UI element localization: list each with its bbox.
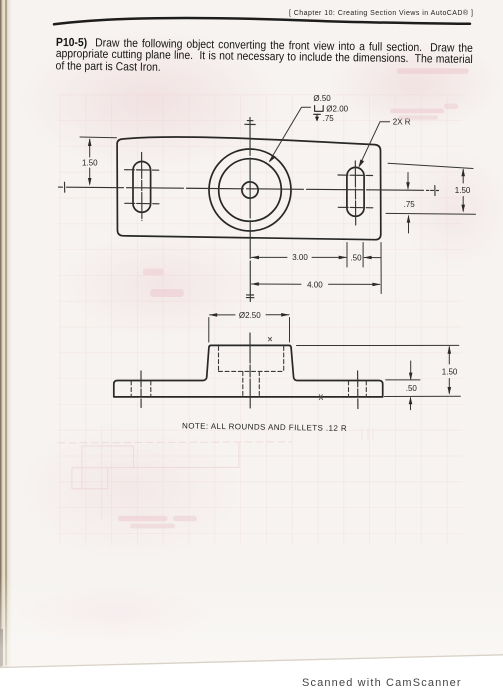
svg-text:Ø2.00: Ø2.00 xyxy=(326,105,348,114)
stray pencil mark x upper xyxy=(268,337,271,341)
dim .75 lower arrow line xyxy=(408,216,410,233)
svg-text:[ Chapter 10: Creating Sectio: [ Chapter 10: Creating Section Views in … xyxy=(289,9,473,17)
counterbore circle Ø2.00 xyxy=(219,159,282,222)
extension line base bottom xyxy=(385,395,461,397)
dim 3.00 line right segment xyxy=(312,256,346,258)
arrowhead .75 down xyxy=(406,182,410,190)
dim 1.50 left line upper xyxy=(89,139,91,157)
counterbore symbol xyxy=(315,106,324,112)
pink bleed-through ghost text smudges xyxy=(118,68,469,528)
header rule xyxy=(54,18,470,24)
left slot lower arc center tick xyxy=(125,202,159,205)
horizontal centerline left end dash xyxy=(59,186,63,188)
extension line slot left edge xyxy=(346,243,348,268)
leader line counterbore callout xyxy=(270,107,311,161)
front view left slot centerline xyxy=(140,371,142,408)
paragraph problem text xyxy=(55,38,472,79)
dim .50 front upper arrow line xyxy=(410,361,412,379)
svg-text:.50: .50 xyxy=(350,253,362,262)
arrowhead 1.50 right down xyxy=(461,205,465,213)
center hole Ø.50 xyxy=(242,182,258,198)
extension line boss left xyxy=(208,318,210,343)
dim 1.50 right line upper xyxy=(462,170,464,184)
vertical centerline top tick 1 xyxy=(247,120,253,122)
dim .50 arrow line xyxy=(364,257,381,259)
dim Ø2.50 line left segment xyxy=(210,314,235,316)
right slot vertical centerline xyxy=(354,161,356,225)
faint pink graph-paper bleed grid xyxy=(58,95,462,545)
hidden line left slot right xyxy=(150,381,152,396)
svg-text:4.00: 4.00 xyxy=(307,281,323,290)
arrowhead 1.50 front up xyxy=(448,346,452,354)
extension line boss right xyxy=(289,318,291,343)
stray pencil mark x lower xyxy=(319,395,322,400)
arrowhead .50 front down xyxy=(409,373,413,381)
extension line plate right edge xyxy=(380,243,382,294)
extension line right upper xyxy=(388,163,473,168)
leader line 2X R callout xyxy=(359,122,389,166)
hidden line counterbore right xyxy=(283,346,285,371)
arrowhead 1.50 left down xyxy=(88,178,92,186)
right slot xyxy=(347,167,364,216)
hidden line hole left xyxy=(242,372,244,397)
vertical centerline of hole xyxy=(249,118,251,302)
extension line slot right edge xyxy=(362,243,364,268)
left slot vertical centerline xyxy=(141,153,143,221)
svg-text:3.00: 3.00 xyxy=(292,253,308,262)
svg-text:1.50: 1.50 xyxy=(455,186,471,195)
dim 1.50 left line lower xyxy=(89,168,91,184)
svg-text:.75: .75 xyxy=(404,200,416,209)
pink mottling blobs xyxy=(20,30,280,170)
arrowhead .50 left xyxy=(364,256,372,260)
dim 3.00 line left segment xyxy=(252,256,288,258)
arrowhead 1.50 front down xyxy=(448,387,452,395)
extension line right lower xyxy=(386,212,476,215)
hidden line counterbore bottom xyxy=(219,370,284,372)
svg-text:NOTE: ALL ROUNDS AND FILLETS .: NOTE: ALL ROUNDS AND FILLETS .12 R xyxy=(182,421,347,433)
hidden line hole right xyxy=(258,372,260,397)
horizontal centerline right end tick xyxy=(434,186,436,196)
depth symbol bar xyxy=(314,113,321,115)
arrowhead 3.00 left xyxy=(251,256,259,260)
svg-text:.75: .75 xyxy=(323,114,335,123)
extension line boss top xyxy=(297,344,459,346)
right slot lower arc center tick xyxy=(338,206,373,209)
hidden line right slot right xyxy=(365,381,367,396)
extension line base top xyxy=(386,379,420,381)
pink bleed-through ghost lines xyxy=(58,428,373,520)
depth symbol shaft xyxy=(316,115,318,121)
dim 4.00 line left segment xyxy=(252,283,302,285)
arrowhead .50 front up xyxy=(409,397,413,405)
horizontal centerline left end tick xyxy=(64,182,66,192)
leader arrowhead counterbore callout xyxy=(269,155,276,163)
vertical centerline bottom tick 2 xyxy=(246,297,254,299)
front view vertical centerline xyxy=(249,333,251,408)
boss circle Ø2.50 xyxy=(209,149,291,231)
arrowhead Ø2.50 left xyxy=(209,313,217,317)
svg-text:.50: .50 xyxy=(406,384,418,393)
hidden line right slot left xyxy=(348,381,350,396)
dim 4.00 line right segment xyxy=(329,283,380,285)
left slot xyxy=(133,162,151,213)
right slot upper arc center tick xyxy=(338,174,373,177)
dim 1.50 right line lower xyxy=(462,197,464,212)
depth symbol arrowhead xyxy=(315,117,319,122)
hidden line left slot left xyxy=(130,381,132,396)
plate outline (top view) xyxy=(117,137,381,240)
svg-text:1.50: 1.50 xyxy=(442,367,458,376)
dim 1.50 front line upper xyxy=(448,347,450,364)
vertical centerline top tick 2 xyxy=(245,123,255,125)
horizontal main centerline xyxy=(67,187,429,190)
horizontal centerline right end dash xyxy=(431,189,434,191)
arrowhead 3.00 right xyxy=(339,256,347,260)
arrowhead 4.00 right xyxy=(372,283,380,287)
dim 1.50 front line lower xyxy=(448,379,450,394)
arrowhead 1.50 left up xyxy=(88,138,92,146)
hidden line counterbore left xyxy=(218,346,220,371)
leader arrowhead 2X R xyxy=(359,160,365,168)
dim .75 upper arrow line xyxy=(407,173,409,189)
svg-text:1.50: 1.50 xyxy=(82,158,98,167)
front view right slot centerline xyxy=(357,371,359,409)
left slot upper arc center tick xyxy=(125,169,159,172)
base and boss outline (front view) xyxy=(114,345,383,397)
dim Ø2.50 line right segment xyxy=(266,314,289,316)
arrowhead 4.00 left xyxy=(251,282,259,286)
vertical centerline bottom tick 1 xyxy=(247,294,254,296)
svg-text:Ø2.50: Ø2.50 xyxy=(239,311,261,320)
svg-text:Ø.50: Ø.50 xyxy=(313,94,331,103)
dim .50 front lower arrow line xyxy=(410,398,412,410)
arrowhead .75 up xyxy=(407,215,411,223)
arrowhead Ø2.50 right xyxy=(281,313,289,317)
horizontal centerline right end dash 2 xyxy=(437,190,439,192)
extension line plate top left xyxy=(80,136,117,139)
arrowhead 1.50 right up xyxy=(461,168,465,176)
